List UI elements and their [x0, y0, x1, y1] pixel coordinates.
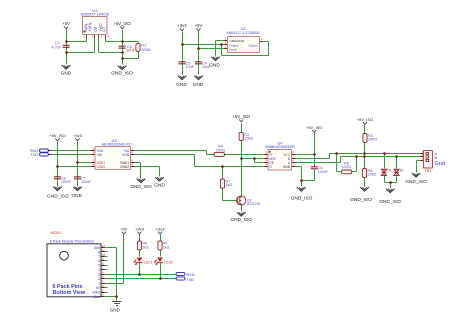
svg-text:+5V_ISO: +5V_ISO	[357, 117, 373, 122]
svg-text:100Ω: 100Ω	[216, 148, 225, 152]
svg-text:GND_ISO: GND_ISO	[47, 194, 69, 200]
svg-text:100nF: 100nF	[318, 170, 329, 174]
svg-text:VOB: VOB	[122, 153, 129, 157]
svg-text:D1: D1	[400, 169, 404, 173]
svg-text:MOD1: MOD1	[51, 231, 62, 235]
svg-text:VIB: VIB	[97, 153, 102, 157]
svg-text:8: 8	[98, 250, 100, 254]
svg-text:10uF: 10uF	[186, 65, 195, 69]
svg-text:Gnd: Gnd	[94, 295, 100, 299]
svg-text:+5V_ISO: +5V_ISO	[232, 114, 251, 119]
svg-text:10uF: 10uF	[202, 65, 211, 69]
svg-text:2: 2	[98, 277, 100, 281]
svg-text:6 Pack Module Pins Bottom: 6 Pack Module Pins Bottom	[50, 240, 94, 244]
svg-text:3: 3	[98, 273, 100, 277]
svg-text:LED0: LED0	[165, 261, 174, 265]
svg-text:1: 1	[98, 281, 100, 285]
svg-text:20kΩ: 20kΩ	[368, 138, 377, 142]
svg-text:GND: GND	[71, 193, 82, 199]
svg-text:+3v3: +3v3	[135, 226, 145, 231]
svg-text:Output: Output	[248, 43, 257, 47]
svg-text:+VIN: +VIN	[87, 23, 92, 32]
svg-text:+3v3: +3v3	[156, 226, 166, 231]
svg-text:BSS138: BSS138	[247, 202, 260, 206]
svg-text:Gnd: Gnd	[94, 246, 100, 250]
svg-text:+5V_ISO: +5V_ISO	[114, 21, 132, 26]
svg-text:100nF: 100nF	[81, 180, 92, 184]
svg-text:GND_ISO: GND_ISO	[350, 197, 372, 203]
svg-text:GND_ISO: GND_ISO	[130, 184, 152, 190]
svg-text:+3v3: +3v3	[73, 133, 83, 138]
svg-text:+5V_ISO: +5V_ISO	[49, 133, 65, 138]
svg-text:GND_ISO: GND_ISO	[230, 217, 252, 223]
svg-text:5: 5	[98, 264, 100, 268]
svg-text:10kΩ: 10kΩ	[244, 137, 253, 141]
svg-text:ADUM5201ARZ-RL7: ADUM5201ARZ-RL7	[102, 143, 133, 147]
svg-text:RXD: RXD	[187, 273, 195, 277]
svg-text:TXD: TXD	[187, 278, 195, 282]
svg-text:100nF: 100nF	[61, 180, 72, 184]
svg-text:GND: GND	[61, 70, 72, 76]
svg-text:200Ω: 200Ω	[141, 47, 151, 52]
svg-text:GND_ISO: GND_ISO	[111, 71, 133, 77]
svg-text:B: B	[435, 155, 438, 160]
svg-text:AMS1117-3.3 C68009: AMS1117-3.3 C68009	[226, 31, 259, 35]
svg-text:GND: GND	[193, 82, 204, 88]
svg-text:4: 4	[98, 268, 100, 272]
svg-text:Bottom View: Bottom View	[53, 290, 86, 296]
svg-text:TXD: TXD	[30, 153, 38, 157]
svg-text:10uF: 10uF	[126, 48, 136, 53]
svg-text:Gnd: Gnd	[435, 161, 446, 167]
svg-text:B0505XT-1WR3S: B0505XT-1WR3S	[81, 13, 110, 17]
svg-text:GND_ISO: GND_ISO	[291, 195, 313, 201]
svg-text:+5V: +5V	[195, 23, 203, 28]
svg-text:120Ω: 120Ω	[342, 165, 351, 169]
svg-text:20kΩ: 20kΩ	[368, 173, 377, 177]
svg-text:1kΩ: 1kΩ	[226, 183, 233, 187]
svg-text:GND_ISO: GND_ISO	[379, 199, 401, 205]
svg-text:D2: D2	[387, 169, 391, 173]
svg-text:GND: GND	[176, 82, 187, 88]
svg-text:+3v3: +3v3	[177, 23, 187, 28]
svg-text:SN65HVD3082EDR: SN65HVD3082EDR	[265, 145, 295, 149]
svg-text:GND: GND	[283, 165, 291, 169]
svg-text:VMot: VMot	[92, 290, 100, 294]
svg-text:+5V: +5V	[120, 226, 128, 231]
svg-text:Input: Input	[230, 47, 237, 51]
svg-text:2kΩ: 2kΩ	[163, 245, 170, 249]
svg-text:LED1: LED1	[144, 261, 153, 265]
svg-text:+5V_ISO: +5V_ISO	[306, 125, 322, 130]
svg-text:4.7uF: 4.7uF	[51, 45, 62, 50]
svg-text:GND2: GND2	[120, 165, 129, 169]
svg-text:2kΩ: 2kΩ	[143, 245, 150, 249]
svg-text:GND: GND	[154, 183, 165, 189]
svg-text:+5V: +5V	[62, 21, 70, 26]
svg-text:7: 7	[98, 255, 100, 259]
svg-text:GND: GND	[209, 63, 220, 69]
svg-text:TB1: TB1	[425, 169, 432, 173]
svg-text:VDD2: VDD2	[97, 165, 106, 169]
svg-text:GND_ISO: GND_ISO	[405, 179, 427, 185]
svg-text:GND: GND	[110, 308, 121, 313]
svg-text:UT: UT	[102, 26, 107, 32]
svg-text:6: 6	[98, 259, 100, 263]
